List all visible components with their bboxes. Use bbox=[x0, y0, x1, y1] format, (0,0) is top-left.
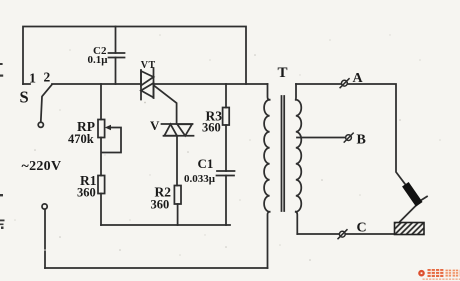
svg-text:~220V: ~220V bbox=[22, 159, 62, 174]
svg-text:0.1μ: 0.1μ bbox=[88, 54, 109, 66]
svg-text:0.033μ: 0.033μ bbox=[184, 173, 216, 185]
svg-text:C: C bbox=[357, 221, 367, 236]
svg-text:V: V bbox=[150, 118, 160, 133]
svg-text:470k: 470k bbox=[68, 132, 94, 146]
svg-text:B: B bbox=[357, 133, 366, 148]
svg-text:1: 1 bbox=[29, 72, 36, 87]
svg-text:VT: VT bbox=[141, 60, 156, 71]
svg-text:360: 360 bbox=[151, 197, 170, 211]
svg-text:2: 2 bbox=[44, 70, 51, 85]
svg-text:360: 360 bbox=[77, 185, 96, 199]
svg-text:C1: C1 bbox=[198, 156, 214, 171]
svg-text:S: S bbox=[20, 88, 29, 107]
svg-text:T: T bbox=[278, 65, 288, 81]
svg-text:A: A bbox=[353, 71, 364, 86]
svg-text:360: 360 bbox=[202, 121, 221, 135]
